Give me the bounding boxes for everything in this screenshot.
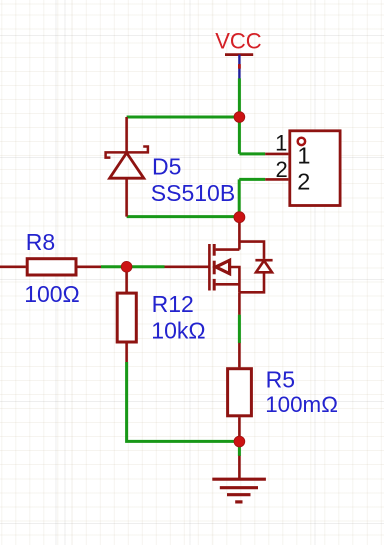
connector pin 1 lead [265, 153, 288, 156]
resistor R5 top pin [238, 343, 241, 368]
resistor R8 right pin [77, 265, 101, 268]
connector J1 body [290, 131, 340, 206]
transistor Q1 body diode branch top [239, 242, 264, 259]
transistor Q1 body diode cathode bar [255, 259, 272, 262]
svg-text:100mΩ: 100mΩ [265, 392, 338, 417]
transistor Q1 body diode triangle [256, 261, 272, 273]
resistor R8 body [27, 259, 76, 275]
svg-text:D5: D5 [152, 153, 181, 179]
svg-text:1: 1 [297, 142, 310, 168]
wire connector pin 2 down to node B [238, 179, 241, 215]
svg-text:2: 2 [297, 169, 310, 195]
diode D5 cathode pin [125, 117, 128, 152]
power symbol VCC bar [225, 53, 253, 56]
transistor Q1 body arrow head [216, 260, 230, 273]
transistor Q1 drain link [216, 248, 240, 251]
wire source to R5 [238, 315, 241, 343]
ground bar 3 [227, 493, 251, 496]
transistor Q1 gate bar [208, 244, 211, 291]
resistor R12 bottom pin [125, 343, 128, 362]
ground pin [238, 456, 241, 478]
transistor Q1 gate pin [165, 265, 210, 268]
transistor Q1 channel dash middle [213, 261, 216, 275]
junction node D [234, 436, 245, 447]
resistor R12 body [117, 293, 136, 342]
svg-text:100Ω: 100Ω [24, 281, 80, 307]
ground bar 1 [212, 478, 266, 481]
resistor R5 bottom pin [238, 417, 241, 441]
transistor Q1 body diode branch bottom [239, 272, 264, 292]
node C junction wire down to R12 [125, 268, 128, 292]
power symbol VCC pin dot [238, 64, 241, 69]
junction node C [121, 261, 132, 272]
diode D5 anode pin [125, 178, 128, 216]
ground bar 2 [220, 486, 258, 489]
transistor Q1 source pin [238, 292, 241, 315]
transistor Q1 channel dash top [213, 244, 216, 256]
wire node A level to connector pin 1 [239, 152, 265, 155]
resistor R5 body [228, 369, 252, 416]
svg-text:R5: R5 [266, 367, 295, 393]
wire top horizontal node A to D5 cathode column [127, 116, 240, 119]
transistor Q1 drain pin [238, 219, 241, 250]
wire R8 to gate with node C [101, 265, 165, 268]
svg-text:R8: R8 [26, 229, 55, 255]
transistor Q1 source link [216, 283, 240, 286]
wire node D down to ground [238, 442, 241, 457]
power symbol VCC pin [238, 55, 240, 79]
wire R12 down and right to node D [127, 362, 240, 441]
connector pin1 marker circle [298, 138, 305, 145]
diode D5 schottky cathode bar [106, 147, 148, 158]
wire VCC down to node A and pin1 level [238, 78, 241, 153]
svg-text:VCC: VCC [215, 28, 261, 53]
svg-text:SS510B: SS510B [151, 180, 235, 206]
diode D5 triangle [110, 153, 144, 178]
connector pin 2 lead [265, 178, 288, 181]
resistor R8 left pin [0, 265, 26, 268]
junction node B [234, 212, 245, 223]
svg-text:R12: R12 [152, 291, 194, 317]
svg-text:1: 1 [275, 130, 287, 155]
svg-text:10kΩ: 10kΩ [151, 318, 205, 344]
wire connector pin 2 horizontal [239, 178, 265, 181]
wire bottom horizontal D5 anode to node B [127, 215, 240, 218]
ground bar 4 [235, 500, 242, 503]
junction node A [234, 112, 245, 123]
transistor Q1 body arrow line [228, 267, 239, 292]
transistor Q1 channel dash bottom [213, 279, 216, 291]
svg-text:2: 2 [276, 157, 288, 182]
